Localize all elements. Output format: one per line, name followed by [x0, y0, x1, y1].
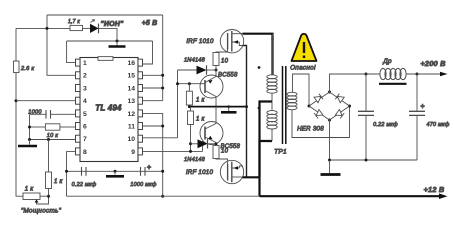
wire r1k1 bottom [188, 105, 190, 107]
MOSFET M1 IRF1010 [220, 30, 243, 53]
wire diode1 cathode to node [207, 69, 217, 71]
svg-text:+5 В: +5 В [142, 20, 158, 27]
svg-text:12: 12 [127, 111, 135, 118]
node 1k branch [47, 138, 50, 141]
transistor Q1 BC558 [200, 75, 223, 98]
phase dot bottom [258, 107, 261, 110]
node gnd left [28, 138, 31, 141]
node diode2 branch [189, 142, 192, 145]
node caps right [161, 170, 164, 173]
node junction box/ION [46, 27, 49, 30]
svg-text:10: 10 [221, 149, 229, 155]
wire left rail top [15, 28, 17, 61]
svg-text:15: 15 [127, 73, 135, 80]
wire gate1 lead [216, 49, 228, 53]
wire pin 8 [67, 150, 76, 152]
svg-text:13: 13 [127, 98, 135, 105]
wire to pin 1 [67, 41, 76, 63]
wire ION node horizontal [67, 40, 153, 42]
node mid left [188, 105, 191, 108]
node caps left [65, 170, 68, 173]
svg-text:1 к: 1 к [54, 179, 64, 185]
pin numbers [83, 60, 135, 156]
diode VD ION [90, 24, 99, 33]
IC U1 TL494 body [80, 58, 138, 162]
svg-text:4: 4 [83, 98, 87, 105]
svg-text:Опасно!: Опасно! [290, 65, 316, 72]
wire diode2 cathode [208, 143, 217, 145]
resistor 10 cell2 [213, 146, 219, 159]
svg-text:HER 308: HER 308 [297, 126, 324, 133]
node ION [116, 40, 119, 43]
svg-text:16: 16 [127, 60, 135, 67]
transformer center tap [260, 102, 273, 197]
node pot junction [47, 195, 50, 198]
svg-text:Др: Др [382, 58, 392, 65]
bridge diode D4 [335, 109, 344, 118]
svg-text:0.22 мкф: 0.22 мкф [72, 182, 97, 188]
wire pin 11 [143, 125, 163, 127]
MOSFET M2 IRF1010 [220, 160, 243, 183]
wire pin 12 [143, 113, 163, 126]
node choke left [365, 73, 368, 76]
node choke right [416, 73, 419, 76]
svg-text:+: + [421, 104, 425, 111]
wire +5V box top [47, 14, 163, 16]
resistor R 1,7k [70, 25, 83, 30]
wire +12V rail thin [67, 195, 260, 197]
svg-text:+: + [147, 165, 151, 172]
node pin11 [161, 125, 164, 128]
wire bridge B down [329, 120, 331, 160]
transformer core [283, 66, 286, 144]
wire pin 4 [16, 100, 76, 102]
ground secondary [329, 160, 331, 173]
svg-text:10: 10 [221, 59, 229, 65]
resistor 1k cell2 [188, 111, 194, 125]
node base1 bus [176, 82, 179, 85]
wire pin 9 [143, 150, 203, 152]
wire cap to pin 5 [51, 113, 76, 115]
label arrow glyph [91, 20, 95, 23]
IC notch [98, 57, 113, 61]
svg-text:14: 14 [127, 85, 135, 92]
svg-text:1: 1 [83, 60, 87, 67]
resistor 1k cell1 [186, 91, 192, 105]
wire diode to ION node [99, 28, 118, 41]
transformer secondary [287, 92, 297, 109]
bridge edge LT [309, 92, 330, 106]
wire drain1 vertical [271, 38, 273, 75]
node gate1 [215, 69, 218, 72]
wire 1k bottom [37, 189, 49, 205]
transformer TP1 primary bottom [267, 102, 277, 142]
node 10k [28, 126, 31, 129]
wire M1 drain thick [243, 34, 273, 40]
node gate2 [215, 143, 218, 146]
wire pin8 vertical [66, 151, 68, 196]
wire left rail bottom [16, 73, 23, 197]
diode VD2 1N4148 [198, 139, 208, 148]
bridge diode D2 [335, 94, 344, 103]
potentiometer 1k [23, 193, 40, 200]
wire pin 10 to bus B [143, 137, 178, 139]
svg-text:"Мощность": "Мощность" [21, 208, 62, 215]
wire mid ground rail [189, 106, 246, 108]
svg-text:2.6 к: 2.6 к [20, 66, 34, 72]
bridge edge TR [330, 92, 350, 106]
choke core bar [379, 83, 407, 85]
wire bridge T up [330, 74, 367, 92]
svg-text:7: 7 [83, 136, 87, 143]
wire secondary bottom rail [330, 159, 418, 161]
svg-text:470 мкф: 470 мкф [427, 122, 450, 128]
choke Dr coil [366, 68, 417, 79]
wire r1k1 top [188, 84, 190, 92]
wire cap1000p left [30, 113, 47, 115]
capacitor 1000uf [141, 167, 146, 176]
svg-text:10: 10 [127, 136, 135, 143]
wire +200V with arrow [417, 73, 445, 75]
resistor R 1k vertical [46, 172, 52, 189]
wire pot right terminal [40, 195, 49, 197]
capacitor 0.22uf [82, 167, 87, 176]
bridge edge LB [309, 106, 330, 120]
svg-text:TP1: TP1 [274, 149, 287, 156]
svg-text:9: 9 [131, 149, 135, 156]
transistor Q2 BC558 [200, 122, 223, 145]
svg-text:1 к: 1 к [196, 98, 206, 104]
node r1k top branch [188, 82, 191, 85]
svg-text:8: 8 [83, 149, 87, 156]
svg-text:3: 3 [83, 85, 87, 92]
wire vertical cap/res bus [29, 114, 31, 139]
svg-text:1000 мкф: 1000 мкф [130, 182, 156, 188]
node pin14 [161, 87, 164, 90]
wire pin 14 [143, 87, 163, 89]
svg-text:1 к: 1 к [25, 187, 35, 193]
svg-text:"ИОН": "ИОН" [100, 21, 124, 28]
wire pin 7 [30, 139, 76, 141]
wire to pin 16 [143, 41, 153, 64]
node mid source [245, 105, 248, 108]
diode VD1 1N4148 [197, 66, 207, 75]
resistor R 2,6k [14, 61, 20, 73]
pin brackets right [138, 59, 143, 155]
bridge diode D1 [314, 94, 323, 103]
resistor 10 cell1 [213, 53, 219, 66]
wire r1k2 top [190, 107, 192, 111]
wire gate2 lead [216, 159, 228, 165]
bridge node T [328, 91, 331, 94]
wire diode1 anode from bus B [178, 69, 197, 71]
capacitor 470 output [416, 74, 418, 160]
svg-text:+12 В: +12 В [424, 185, 445, 194]
svg-text:TL 494: TL 494 [95, 104, 122, 113]
node rail cap [365, 159, 368, 162]
svg-text:0.22 мкф: 0.22 мкф [373, 122, 398, 128]
wire +12V rail thick with arrow [260, 195, 445, 197]
transformer TP1 primary top [267, 34, 277, 102]
bridge node B [328, 119, 331, 122]
warning triangle [292, 34, 317, 61]
svg-text:5: 5 [83, 111, 87, 118]
node pin15 [161, 74, 164, 77]
bridge edge BR [330, 106, 350, 120]
wire r1k2 bottom to diode wire [190, 125, 192, 152]
bridge node R [348, 105, 351, 108]
ground mid cells [228, 107, 230, 111]
wire source bus [243, 46, 247, 178]
wire resistor to diode [83, 27, 91, 29]
svg-text:10 к: 10 к [47, 133, 59, 139]
wire 10k left [30, 126, 46, 128]
wire r10-1 bottom to node [215, 66, 217, 71]
svg-text:IRF 1010: IRF 1010 [186, 169, 214, 176]
wire secondary top [293, 74, 310, 106]
wire pin 13 [143, 100, 163, 102]
wire pin 15 [143, 74, 163, 76]
wire +5V bus vertical [162, 15, 164, 101]
wire secondary bottom [292, 106, 350, 138]
wire base1 [178, 83, 206, 85]
svg-text:1 к: 1 к [196, 117, 206, 123]
svg-text:+200 В: +200 В [420, 59, 446, 68]
node bus bottom [161, 195, 164, 198]
node pin4 rail [15, 99, 18, 102]
ground left [29, 140, 31, 145]
bridge node L [308, 105, 311, 108]
capacitor 0.22 output [365, 74, 367, 160]
wire left vertical from box corner to pin 2 [47, 15, 76, 75]
svg-text:1,7 к: 1,7 к [68, 19, 80, 25]
pin brackets left [76, 59, 81, 155]
ground mid [114, 170, 117, 173]
node pin9 r1k2 [189, 150, 192, 153]
svg-text:1N4148: 1N4148 [184, 157, 206, 163]
wire base2 vertical [202, 141, 204, 151]
capacitor 1000 (pin5) [46, 110, 51, 119]
svg-text:6: 6 [83, 124, 87, 131]
wire bus B vertical [177, 70, 179, 138]
ground at ION [116, 41, 118, 46]
svg-text:11: 11 [128, 124, 135, 131]
pot wiper arrow [35, 200, 39, 203]
wire bottom caps row [67, 170, 163, 172]
wire down to 1k [48, 140, 50, 173]
svg-text:2: 2 [83, 73, 87, 80]
wire ION horizontal [16, 27, 70, 29]
wire 10k to pin 6 [60, 126, 76, 128]
phase dot top [258, 66, 261, 69]
wire M2 drain thick [243, 176, 260, 178]
resistor R 10k [45, 124, 60, 130]
svg-text:IRF 1010: IRF 1010 [186, 38, 214, 45]
bridge diode D3 [314, 109, 323, 118]
node rail bridge [328, 159, 331, 162]
svg-text:BC558: BC558 [218, 73, 238, 79]
svg-text:1N4148: 1N4148 [184, 58, 206, 64]
wire M2 drain up to coil [260, 141, 273, 177]
wire +5V bus lower [162, 126, 164, 196]
